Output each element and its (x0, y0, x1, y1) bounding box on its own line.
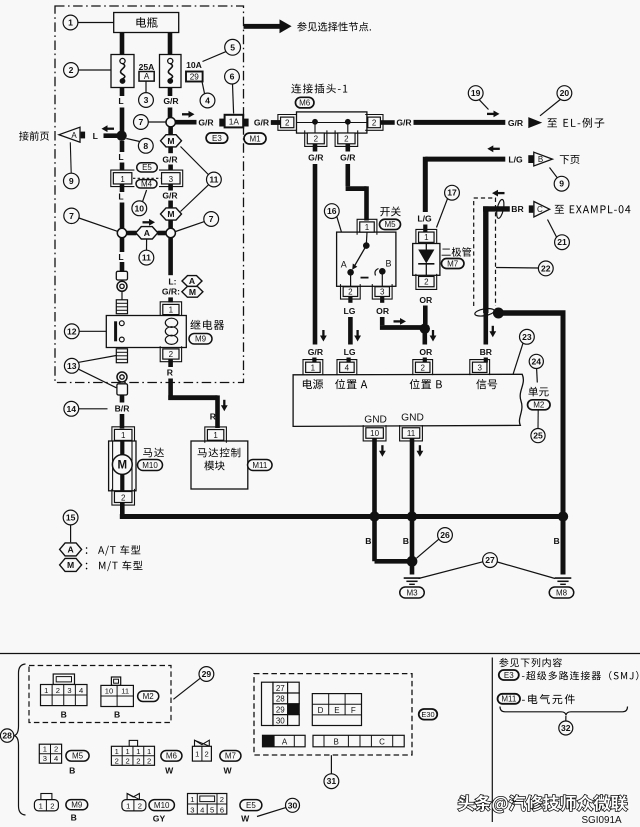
svg-text:2: 2 (50, 801, 54, 810)
svg-text:11: 11 (121, 687, 129, 696)
svg-text:2: 2 (138, 801, 142, 810)
svg-text:4: 4 (200, 805, 204, 814)
svg-text:M2: M2 (143, 692, 155, 701)
svg-text:14: 14 (67, 404, 77, 414)
svg-text:B: B (385, 259, 391, 269)
svg-text:12: 12 (67, 326, 77, 336)
svg-text:M1: M1 (249, 134, 261, 143)
svg-text:2: 2 (314, 135, 319, 144)
svg-text:22: 22 (541, 263, 551, 273)
svg-text:2: 2 (285, 119, 290, 128)
svg-text:M5: M5 (72, 752, 84, 761)
svg-text:2: 2 (125, 756, 129, 765)
svg-text:A: A (71, 131, 77, 140)
svg-text:E3: E3 (504, 671, 514, 680)
svg-text:C: C (537, 205, 543, 214)
svg-text:1: 1 (147, 747, 151, 756)
svg-text:2: 2 (56, 686, 60, 695)
svg-text:G/R: G/R (163, 96, 179, 106)
svg-text:1: 1 (115, 747, 119, 756)
svg-text:W: W (241, 814, 250, 824)
svg-text:15: 15 (66, 513, 76, 523)
svg-text:M: M (118, 460, 128, 472)
svg-text:M11: M11 (501, 695, 517, 704)
svg-text:1A: 1A (229, 116, 240, 126)
svg-text:11: 11 (407, 429, 416, 438)
svg-text:G/R: G/R (162, 155, 178, 165)
svg-text:B: B (553, 536, 559, 546)
svg-text:D: D (318, 706, 324, 715)
svg-text:3: 3 (43, 754, 47, 763)
svg-text:3: 3 (169, 175, 174, 184)
svg-text:B: B (114, 710, 120, 720)
svg-text:11: 11 (209, 175, 218, 185)
svg-text:4: 4 (345, 363, 350, 372)
svg-text:1: 1 (120, 175, 125, 184)
svg-text:30: 30 (288, 800, 298, 810)
svg-text:M: M (67, 560, 74, 570)
svg-text:28: 28 (2, 731, 12, 741)
svg-text:2: 2 (220, 795, 224, 804)
svg-text:2: 2 (169, 350, 174, 359)
svg-text:E30: E30 (421, 710, 434, 719)
svg-text:2: 2 (147, 756, 151, 765)
svg-text:2: 2 (121, 493, 126, 502)
svg-text:4: 4 (205, 96, 210, 106)
svg-text:4: 4 (79, 686, 83, 695)
svg-text:M5: M5 (384, 220, 396, 229)
svg-text:2: 2 (344, 135, 349, 144)
svg-text:7: 7 (139, 117, 144, 127)
svg-text:M8: M8 (556, 588, 568, 597)
svg-text:1: 1 (213, 431, 218, 440)
svg-text:1: 1 (311, 363, 316, 372)
svg-text:A: A (144, 72, 150, 81)
svg-text:17: 17 (447, 188, 457, 198)
svg-text:1: 1 (365, 223, 370, 232)
svg-text:19: 19 (471, 88, 481, 98)
svg-text:OR: OR (376, 306, 390, 316)
svg-text:29: 29 (190, 72, 200, 81)
svg-text:29: 29 (276, 705, 285, 714)
svg-text:1: 1 (195, 749, 199, 758)
svg-text:G/R:: G/R: (162, 286, 180, 296)
svg-text:B/R: B/R (115, 404, 131, 414)
svg-text:2: 2 (424, 278, 429, 287)
svg-text:OR: OR (419, 295, 433, 305)
svg-text:23: 23 (522, 332, 532, 342)
svg-text:30: 30 (276, 716, 285, 725)
svg-text:7: 7 (209, 214, 214, 224)
svg-text:2: 2 (115, 756, 119, 765)
svg-text:BR: BR (511, 204, 524, 214)
svg-text:2: 2 (204, 749, 208, 758)
svg-text:B: B (69, 766, 75, 776)
svg-text:GND: GND (364, 414, 387, 425)
svg-text:26: 26 (440, 530, 450, 540)
svg-text:6: 6 (220, 805, 224, 814)
svg-text:G/R: G/R (254, 118, 270, 128)
svg-text:L/G: L/G (508, 155, 523, 165)
svg-text:1: 1 (169, 305, 174, 314)
svg-text:B: B (71, 813, 77, 823)
svg-text:M11: M11 (252, 461, 268, 470)
svg-text:29: 29 (202, 669, 212, 679)
svg-text:M: M (189, 287, 196, 297)
svg-text:4: 4 (54, 754, 58, 763)
svg-text:2: 2 (69, 65, 74, 75)
svg-text:M2: M2 (533, 401, 545, 410)
svg-text:1: 1 (424, 233, 429, 242)
svg-text:L: L (93, 131, 98, 141)
svg-text:25: 25 (533, 431, 543, 441)
svg-text:B: B (61, 710, 67, 720)
svg-text:E3: E3 (212, 134, 222, 143)
svg-text:8: 8 (143, 141, 148, 151)
svg-text:1: 1 (44, 686, 48, 695)
svg-text:16: 16 (327, 206, 337, 216)
svg-text:7: 7 (69, 211, 74, 221)
svg-text:1: 1 (43, 745, 47, 754)
svg-text:M10: M10 (154, 801, 170, 810)
svg-text:1: 1 (190, 795, 194, 804)
svg-text:M10: M10 (142, 461, 158, 470)
svg-text:W: W (223, 766, 232, 776)
svg-text:R: R (210, 412, 217, 422)
svg-text:21: 21 (557, 237, 567, 247)
svg-text:B: B (365, 536, 371, 546)
svg-text:LG: LG (344, 347, 356, 357)
svg-text:A: A (282, 737, 288, 746)
svg-text:A: A (189, 276, 195, 286)
svg-text:W: W (165, 766, 174, 776)
svg-text:10: 10 (105, 687, 113, 696)
svg-text:B: B (334, 737, 339, 746)
svg-text:L: L (118, 152, 123, 162)
svg-text:2: 2 (54, 745, 58, 754)
svg-text:3: 3 (380, 287, 385, 296)
svg-text:1: 1 (121, 431, 126, 440)
svg-text:M7: M7 (225, 752, 237, 761)
svg-text:3: 3 (190, 805, 194, 814)
svg-text:5: 5 (230, 42, 235, 52)
svg-text:3: 3 (477, 363, 482, 372)
svg-text:3: 3 (67, 686, 71, 695)
svg-text:11: 11 (142, 253, 151, 263)
svg-text:3: 3 (144, 95, 149, 105)
svg-text:LG: LG (344, 306, 356, 316)
svg-text:9: 9 (69, 176, 74, 186)
svg-text:L: L (118, 96, 123, 106)
svg-text:L/G: L/G (417, 214, 432, 224)
svg-text:25A: 25A (139, 62, 155, 72)
svg-text:M: M (167, 209, 174, 219)
svg-text:2: 2 (136, 756, 140, 765)
svg-text:M: M (167, 136, 174, 146)
svg-text:1: 1 (68, 18, 73, 28)
svg-text:R: R (167, 368, 174, 378)
svg-text:M3: M3 (406, 588, 418, 597)
svg-text:M9: M9 (71, 801, 83, 810)
svg-text:G/R: G/R (162, 191, 178, 201)
svg-text:E5: E5 (246, 801, 256, 810)
svg-text:BR: BR (480, 347, 493, 357)
svg-text:L: L (118, 252, 123, 262)
svg-text:M4: M4 (141, 180, 153, 189)
svg-text:M6: M6 (299, 98, 311, 107)
svg-text:24: 24 (532, 356, 542, 366)
svg-text:9: 9 (559, 179, 564, 189)
svg-text:G/R: G/R (396, 118, 412, 128)
svg-text:6: 6 (230, 72, 235, 82)
svg-text:2: 2 (420, 363, 425, 372)
svg-text:1: 1 (125, 747, 129, 756)
svg-text:13: 13 (67, 361, 77, 371)
svg-text:G/R: G/R (508, 118, 524, 128)
svg-text:1: 1 (39, 801, 43, 810)
svg-text:10: 10 (135, 203, 145, 213)
svg-text:G/R: G/R (340, 152, 356, 162)
svg-text:GND: GND (401, 412, 424, 423)
svg-text:E: E (334, 706, 339, 715)
svg-text:20: 20 (560, 88, 570, 98)
svg-text:A: A (341, 259, 347, 269)
svg-text:OR: OR (419, 347, 433, 357)
svg-text:10: 10 (370, 429, 379, 438)
svg-text:E5: E5 (142, 163, 152, 172)
svg-text:32: 32 (561, 723, 571, 733)
svg-text:28: 28 (276, 695, 285, 704)
svg-text:L:: L: (168, 276, 176, 286)
svg-text:A: A (144, 228, 150, 238)
svg-text:SGI091A: SGI091A (581, 815, 621, 826)
svg-text:M9: M9 (195, 335, 207, 344)
svg-text:B: B (538, 155, 543, 164)
svg-text:2: 2 (372, 119, 377, 128)
svg-text:31: 31 (327, 776, 337, 786)
svg-text:27: 27 (276, 684, 285, 693)
svg-text:M6: M6 (166, 752, 178, 761)
svg-text:G/R: G/R (308, 152, 324, 162)
svg-text:27: 27 (485, 555, 495, 565)
svg-text:10A: 10A (186, 60, 202, 70)
svg-text:A: A (67, 545, 73, 555)
svg-text:GY: GY (153, 814, 166, 824)
svg-text:L: L (118, 192, 123, 202)
svg-text:G/R: G/R (198, 118, 214, 128)
svg-text:2: 2 (348, 287, 353, 296)
svg-text:B: B (403, 536, 409, 546)
svg-text:G/R: G/R (308, 347, 324, 357)
svg-text:F: F (351, 706, 356, 715)
svg-text:5: 5 (210, 805, 214, 814)
svg-text:M7: M7 (447, 259, 459, 268)
svg-text:1: 1 (126, 801, 130, 810)
svg-text:1: 1 (136, 747, 140, 756)
svg-text:C: C (379, 737, 385, 746)
